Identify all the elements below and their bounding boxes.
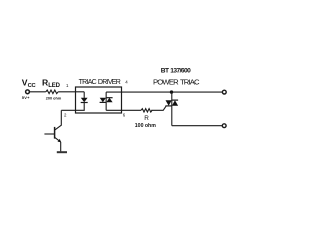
emitter lead: [60, 142, 62, 152]
resistor RLED: [46, 90, 58, 94]
svg-text:TRIAC DRIVER: TRIAC DRIVER: [79, 79, 121, 86]
terminal top right: [222, 90, 226, 94]
LED anode lead: [83, 92, 85, 98]
terminal VCC: [26, 90, 30, 94]
LED cathode lead: [61, 103, 84, 111]
svg-text:CC: CC: [28, 83, 37, 89]
junction node: [170, 90, 173, 93]
wire pin2 to Q1 collector: [55, 110, 61, 130]
wire pin4 to terminal (top): [106, 91, 222, 93]
wire VCC to RLED: [30, 91, 46, 93]
LED D1: [81, 98, 88, 103]
svg-text:200 ohm: 200 ohm: [46, 97, 62, 101]
opto triac triangles: [100, 98, 106, 103]
opto triac vertical: [105, 92, 107, 110]
ground: [57, 151, 67, 153]
wire triac MT1 to terminal (bottom): [172, 125, 223, 127]
wire RLED to opto pin1: [58, 91, 84, 93]
transistor Q1: [44, 127, 61, 142]
wire pin6 to R: [106, 109, 141, 111]
resistor R: [141, 109, 152, 112]
svg-text:5V+: 5V+: [22, 95, 30, 100]
svg-text:LED: LED: [48, 83, 60, 89]
terminal bottom right: [222, 124, 226, 128]
power triac triangles: [166, 100, 172, 106]
node VCC label: [22, 77, 37, 89]
svg-text:POWER TRIAC: POWER TRIAC: [153, 77, 200, 86]
svg-text:BT 137/600: BT 137/600: [161, 68, 191, 75]
svg-text:100 ohm: 100 ohm: [135, 123, 156, 129]
svg-text:R: R: [144, 115, 149, 122]
power triac vertical: [171, 92, 173, 126]
wire R to gate: [151, 106, 166, 110]
opto box U1: [76, 87, 122, 113]
resistor RLED label: [42, 77, 61, 89]
